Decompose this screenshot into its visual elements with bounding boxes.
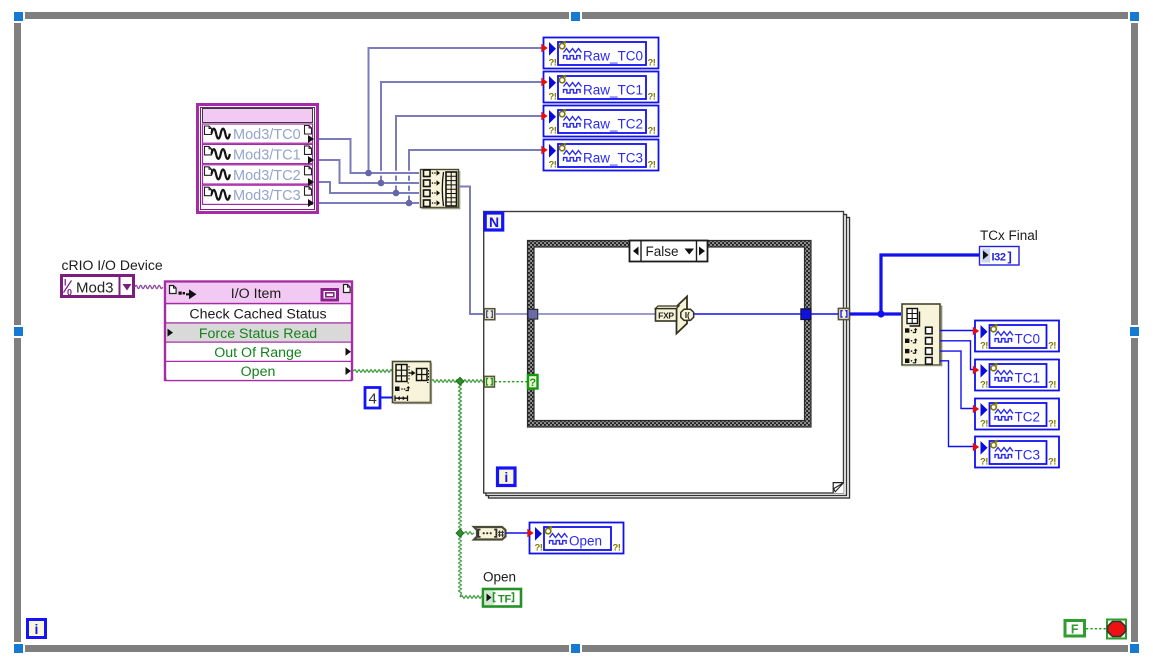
waveform chart indicator Raw_TC1	[541, 72, 658, 103]
reshape array node	[393, 362, 432, 404]
wire green vertical down	[459, 381, 462, 597]
svg-text:?!: ?!	[648, 160, 656, 171]
svg-text:?!: ?!	[980, 457, 988, 468]
wire boolean array Open to reshape array	[353, 370, 392, 373]
svg-text:?!: ?!	[980, 341, 988, 352]
wire case tunnel to loop tunnel (blue)	[811, 313, 838, 315]
refnum squiggle wire Mod3 to property node	[135, 285, 163, 288]
svg-text:Mod3: Mod3	[76, 280, 114, 297]
svg-text:TCx Final: TCx Final	[980, 228, 1038, 243]
svg-text:?!: ?!	[1048, 341, 1056, 352]
FPGA I/O node Mod3/TC0-TC3	[198, 105, 318, 213]
waveform chart indicator Open	[527, 523, 623, 554]
svg-text:Raw_TC1: Raw_TC1	[583, 82, 643, 97]
svg-text:I/O Item: I/O Item	[231, 286, 281, 302]
wire branch to Raw_TC2	[396, 116, 543, 193]
svg-text:TC2: TC2	[1015, 409, 1041, 424]
svg-text:?!: ?!	[549, 92, 557, 103]
Mod3 I/O control	[62, 276, 134, 298]
svg-text:?!: ?!	[648, 126, 656, 137]
svg-text:TC1: TC1	[1015, 370, 1041, 385]
svg-text:?!: ?!	[648, 92, 656, 103]
case structure border	[528, 241, 812, 428]
svg-text:?!: ?!	[613, 543, 621, 554]
svg-text:TC0: TC0	[1015, 331, 1041, 346]
waveform chart indicator TC0	[973, 321, 1059, 352]
TCx Final I32 array indicator	[980, 247, 1020, 266]
while loop iteration terminal i	[28, 620, 46, 638]
waveform chart indicator TC3	[973, 437, 1059, 468]
for loop input tunnel (bool array)	[484, 376, 494, 387]
waveform chart indicator Raw_TC3	[541, 140, 658, 171]
for loop input tunnel (FXP array)	[484, 309, 495, 320]
junction diamond 2	[456, 529, 464, 537]
svg-text:Out Of Range: Out Of Range	[214, 345, 302, 361]
svg-text:4: 4	[369, 391, 377, 408]
svg-text:0: 0	[67, 288, 72, 298]
wire junction dots	[365, 170, 412, 207]
wire to TC0	[940, 330, 974, 332]
for loop iteration terminal i	[498, 468, 516, 486]
svg-text:Force Status Read: Force Status Read	[199, 326, 317, 342]
wire branch to Raw_TC1	[381, 82, 543, 183]
interleave 1D arrays node	[421, 170, 460, 209]
svg-text:?!: ?!	[980, 419, 988, 430]
wire Mod3/TC2 to interleave	[319, 182, 419, 193]
for loop count terminal N	[485, 213, 503, 230]
svg-text:?!: ?!	[549, 126, 557, 137]
svg-text:?: ?	[529, 377, 536, 389]
svg-text:Open: Open	[569, 533, 602, 548]
wire to TC1	[940, 341, 974, 370]
case selector terminal ?	[528, 375, 538, 389]
svg-text:N: N	[489, 214, 499, 230]
for loop dog ear	[833, 483, 844, 494]
thick I32 array wire up to TCx Final	[881, 255, 979, 314]
case output tunnel	[801, 309, 811, 320]
wire to TC3	[940, 361, 974, 447]
numeric constant 4	[365, 388, 380, 409]
wire loop tunnel to case tunnel (FXP)	[495, 313, 528, 315]
svg-text:?!: ?!	[549, 58, 557, 69]
wire interleave output to for loop tunnel	[459, 187, 486, 315]
svg-text:?!: ?!	[549, 160, 557, 171]
svg-text:F: F	[1071, 623, 1079, 637]
wire Mod3/TC0 to interleave	[319, 139, 419, 173]
svg-text:Raw_TC2: Raw_TC2	[583, 116, 643, 131]
wire bool dotted to case selector	[495, 381, 528, 383]
wire branch to Raw_TC0	[369, 48, 544, 173]
FXP to integer conversion node	[656, 297, 694, 334]
Open boolean array indicator	[483, 589, 521, 607]
waveform chart indicator Raw_TC2	[541, 106, 658, 137]
svg-text:?!: ?!	[535, 543, 543, 554]
svg-text:TC3: TC3	[1015, 447, 1041, 462]
case selector label False	[630, 241, 708, 262]
svg-text:cRIO I/O Device: cRIO I/O Device	[62, 257, 163, 273]
wire Mod3/TC1 to interleave	[319, 160, 419, 183]
waveform chart indicator TC1	[973, 360, 1059, 391]
svg-text:]: ]	[1008, 249, 1012, 264]
boolean array to number node	[474, 527, 506, 540]
svg-text:I: I	[64, 278, 67, 288]
svg-text:?!: ?!	[648, 58, 656, 69]
for loop frames (stacked)	[484, 212, 850, 499]
junction diamond 1	[456, 377, 464, 385]
svg-text:Raw_TC0: Raw_TC0	[583, 48, 643, 63]
svg-text:Mod3/TC1: Mod3/TC1	[233, 147, 301, 163]
dotted wire F to stop terminal	[1086, 628, 1106, 630]
waveform chart indicator TC2	[973, 399, 1059, 430]
wire green to TF indicator	[460, 596, 483, 599]
blue junction dot	[877, 310, 884, 317]
svg-text:Mod3/TC3: Mod3/TC3	[233, 188, 301, 204]
false constant F	[1065, 621, 1085, 637]
svg-text:False: False	[645, 244, 678, 259]
svg-text:i: i	[504, 469, 508, 485]
svg-text:Open: Open	[483, 570, 516, 585]
for loop output tunnel	[838, 308, 849, 319]
wire 4 to reshape	[381, 397, 392, 399]
svg-text:Raw_TC3: Raw_TC3	[583, 150, 643, 165]
wire bool-to-number to Open chart	[506, 532, 530, 534]
svg-text:?!: ?!	[1048, 380, 1056, 391]
svg-text:TF: TF	[498, 594, 512, 606]
svg-text:FXP: FXP	[658, 311, 674, 321]
wire Mod3/TC3 to interleave	[319, 202, 419, 204]
wire to TC2	[940, 351, 974, 408]
svg-text:Check Cached Status: Check Cached Status	[189, 307, 326, 323]
svg-text:Mod3/TC0: Mod3/TC0	[233, 127, 301, 143]
index array node	[902, 304, 942, 366]
property node I/O Item	[164, 282, 352, 381]
svg-text:i: i	[35, 621, 39, 637]
wire branch to Raw_TC3	[409, 150, 543, 203]
svg-text:I(: I(	[685, 310, 690, 320]
svg-text:?!: ?!	[1048, 419, 1056, 430]
svg-text:Open: Open	[241, 364, 276, 380]
case input tunnel	[528, 309, 538, 319]
svg-text:Mod3/TC2: Mod3/TC2	[233, 168, 301, 184]
waveform chart indicator Raw_TC0	[541, 38, 658, 69]
svg-text:I32: I32	[992, 252, 1006, 264]
svg-text:?!: ?!	[980, 380, 988, 391]
thick I32 array wire loop to index array	[849, 312, 901, 315]
wire FXP node to case output tunnel	[694, 313, 801, 315]
svg-text:?!: ?!	[1048, 457, 1056, 468]
wire case tunnel to FXP node	[538, 313, 656, 315]
loop stop terminal	[1107, 620, 1126, 639]
wire junction to bool-to-number node	[464, 532, 474, 535]
wire reshape to loop tunnel	[431, 380, 484, 383]
